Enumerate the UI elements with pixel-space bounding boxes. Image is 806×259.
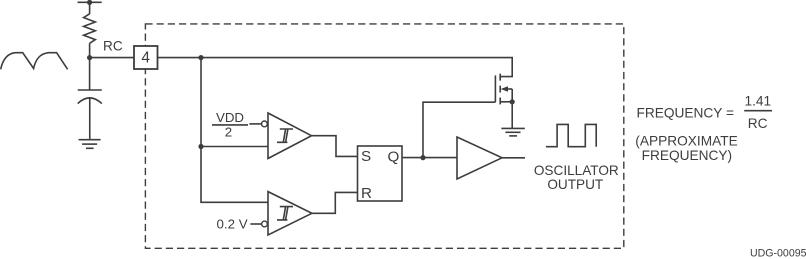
- fraction bar: [744, 110, 772, 112]
- wire top rail: [78, 1, 102, 3]
- svg-text:Q: Q: [388, 148, 400, 165]
- wire source to ground: [511, 102, 513, 128]
- transistor Q1 gate bar: [494, 75, 496, 102]
- wire trunk to comparator U1 plus input: [201, 146, 268, 148]
- wire 0.2V stub: [250, 223, 261, 225]
- wire Q to MOSFET gate: [423, 102, 495, 157]
- comparator U2 bubble: [262, 221, 268, 227]
- resistor R: [84, 14, 96, 44]
- junction dot source: [510, 99, 515, 104]
- svg-text:FREQUENCY): FREQUENCY): [642, 148, 733, 163]
- wire Q output to buffer: [402, 157, 457, 159]
- square wave symbol: [546, 124, 596, 146]
- svg-text:UDG-00095: UDG-00095: [750, 248, 806, 259]
- transistor Q1 channel segments: [499, 74, 501, 105]
- comparator U1: [268, 113, 312, 159]
- transistor Q1 body arrow: [501, 86, 513, 92]
- svg-text:2: 2: [225, 125, 232, 140]
- wire pin 4 to MOSFET drain: [158, 58, 513, 77]
- latch U3 box: [358, 146, 403, 201]
- node RC junction dot: [87, 55, 92, 60]
- schmitt symbol U1: [277, 129, 293, 142]
- svg-text:RC: RC: [103, 39, 123, 54]
- junction dot top rail: [198, 55, 203, 60]
- wire body to source: [511, 89, 513, 102]
- svg-text:FREQUENCY =: FREQUENCY =: [637, 106, 734, 121]
- wire RC node to pin 4 box: [90, 57, 134, 59]
- ground MOSFET source: [501, 128, 524, 136]
- wire trunk to comparator U2 plus input: [201, 147, 268, 203]
- svg-text:OSCILLATOR: OSCILLATOR: [534, 163, 619, 178]
- svg-text:OUTPUT: OUTPUT: [547, 177, 603, 192]
- junction dot top of R: [87, 0, 92, 5]
- wire source lead: [500, 101, 512, 103]
- wire top rail to resistor: [89, 2, 91, 14]
- svg-text:VDD: VDD: [216, 110, 244, 125]
- svg-text:RC: RC: [748, 116, 768, 131]
- wire buffer output: [502, 157, 525, 159]
- junction dot Q output: [420, 155, 425, 160]
- schmitt symbol U2: [277, 207, 293, 220]
- wire trunk down: [200, 58, 202, 147]
- svg-text:0.2 V: 0.2 V: [217, 216, 248, 231]
- wire comparator U2 out to R: [312, 192, 358, 213]
- comparator U1 bubble: [262, 121, 268, 127]
- svg-text:R: R: [361, 185, 372, 202]
- svg-text:4: 4: [141, 49, 150, 66]
- waveform sketch: [1, 53, 68, 70]
- pin 4 box: [134, 46, 158, 69]
- wire VDD/2 stub: [249, 123, 261, 125]
- wire resistor to RC node: [89, 43, 91, 57]
- svg-text:1.41: 1.41: [744, 93, 771, 108]
- label VDD/2: [212, 110, 248, 140]
- junction dot trunk: [198, 144, 203, 149]
- comparator U2: [268, 192, 312, 235]
- svg-text:S: S: [361, 148, 371, 165]
- svg-text:(APPROXIMATE: (APPROXIMATE: [635, 134, 737, 149]
- wire comparator U1 out to S: [312, 136, 358, 157]
- capacitor C: [78, 90, 102, 104]
- ground below capacitor: [79, 140, 101, 149]
- wire capacitor to ground: [89, 98, 91, 140]
- buffer U4: [457, 137, 502, 179]
- wire RC node to capacitor: [89, 58, 91, 90]
- dashed enclosure: [145, 24, 623, 248]
